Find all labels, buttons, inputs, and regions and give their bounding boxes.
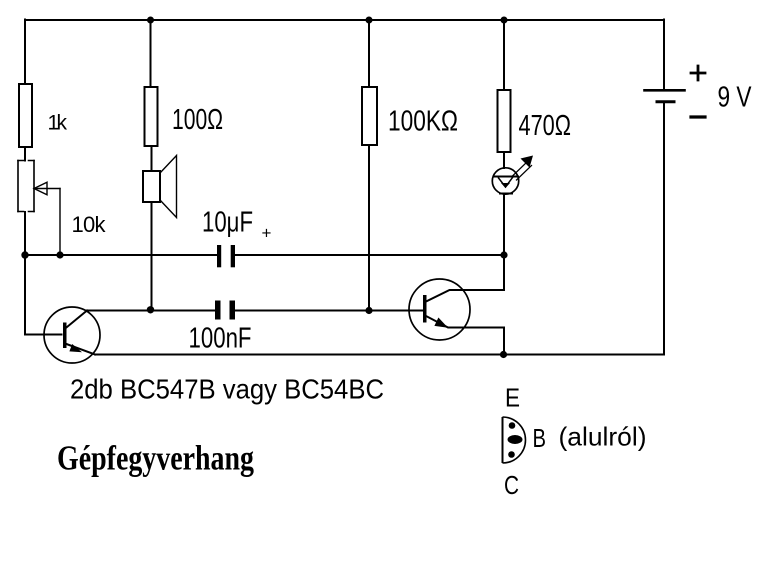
svg-text:C: C <box>504 470 519 500</box>
svg-text:470Ω: 470Ω <box>519 110 572 142</box>
svg-text:9 V: 9 V <box>718 82 753 114</box>
svg-text:Gépfegyverhang: Gépfegyverhang <box>57 440 254 478</box>
svg-text:100nF: 100nF <box>189 323 252 355</box>
svg-text:B: B <box>533 423 547 453</box>
svg-text:10k: 10k <box>72 212 107 237</box>
svg-text:E: E <box>505 383 520 413</box>
svg-text:2db BC547B vagy BC54BC: 2db BC547B vagy BC54BC <box>70 374 384 405</box>
svg-text:(alulról): (alulról) <box>559 422 647 452</box>
svg-text:1k: 1k <box>48 112 68 135</box>
svg-text:+: + <box>262 224 272 243</box>
svg-text:100KΩ: 100KΩ <box>388 106 458 138</box>
svg-text:100Ω: 100Ω <box>172 104 223 136</box>
svg-text:10μF: 10μF <box>202 207 253 239</box>
